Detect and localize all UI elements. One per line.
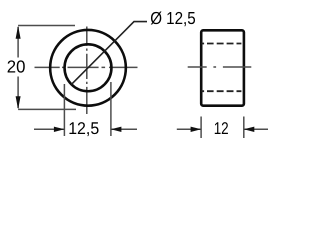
extension line left (dim 12,5 bottom) xyxy=(63,84,65,136)
outer circle xyxy=(50,30,126,106)
arrow down dim 20 xyxy=(16,96,21,109)
leader line diameter xyxy=(71,22,147,85)
extension line left (dim 12) xyxy=(200,117,202,139)
side view body xyxy=(201,30,244,105)
arrow right-pointing (dim 12 left) xyxy=(191,127,202,132)
vertical centerline front view xyxy=(86,27,88,115)
arrow up dim 20 xyxy=(16,26,21,39)
centerline side view xyxy=(188,66,252,68)
inner circle (bore) xyxy=(65,44,112,91)
arrow right-pointing (dim 12,5 left) xyxy=(54,127,65,132)
extension line bottom (dim 20) xyxy=(18,108,76,110)
dimension line 12,5 xyxy=(34,128,137,130)
svg-text:20: 20 xyxy=(7,56,26,76)
hidden line top (bore) xyxy=(201,43,241,45)
svg-text:12: 12 xyxy=(214,119,229,138)
extension line right (dim 12) xyxy=(243,117,245,139)
extension line top (dim 20) xyxy=(18,25,75,27)
arrow left-pointing (dim 12 right) xyxy=(244,127,255,132)
dimension line 12 xyxy=(177,128,268,130)
dimension line 20 xyxy=(17,27,19,108)
hidden line bottom (bore) xyxy=(201,90,241,92)
arrow left-pointing (dim 12,5 right) xyxy=(111,127,122,132)
svg-text:12,5: 12,5 xyxy=(68,119,99,138)
extension line right (dim 12,5 bottom) xyxy=(110,82,112,136)
horizontal centerline front view xyxy=(35,66,138,68)
svg-text:Ø 12,5: Ø 12,5 xyxy=(150,8,196,28)
